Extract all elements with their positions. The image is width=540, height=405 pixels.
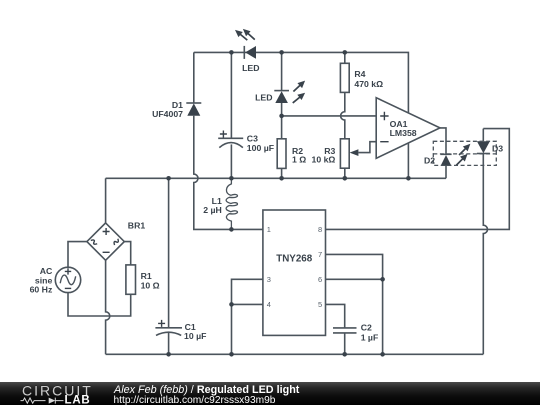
svg-text:6: 6	[318, 275, 322, 284]
svg-text:470 kΩ: 470 kΩ	[354, 79, 383, 89]
svg-text:3: 3	[267, 275, 271, 284]
svg-text:4: 4	[267, 300, 271, 309]
svg-text:1: 1	[267, 225, 271, 234]
svg-text:LAB: LAB	[65, 395, 91, 405]
svg-text:1 Ω: 1 Ω	[292, 154, 306, 164]
svg-text:10 µF: 10 µF	[184, 331, 206, 341]
svg-text:5: 5	[318, 300, 322, 309]
svg-text:D2: D2	[424, 155, 435, 165]
svg-text:LM358: LM358	[390, 128, 417, 138]
svg-text:7: 7	[318, 250, 322, 259]
svg-text:BR1: BR1	[128, 221, 146, 231]
svg-text:60 Hz: 60 Hz	[30, 284, 53, 294]
svg-text:D3: D3	[492, 143, 503, 153]
svg-text:http://circuitlab.com/c92rsssx: http://circuitlab.com/c92rsssx93m9b	[114, 395, 276, 405]
svg-text:1 µF: 1 µF	[361, 333, 379, 343]
svg-text:10 Ω: 10 Ω	[141, 280, 160, 290]
svg-text:R4: R4	[354, 69, 365, 79]
svg-text:10 kΩ: 10 kΩ	[312, 154, 336, 164]
svg-text:UF4007: UF4007	[152, 109, 183, 119]
svg-text:LED: LED	[255, 93, 272, 103]
svg-text:AC: AC	[40, 266, 53, 276]
svg-text:2 µH: 2 µH	[203, 205, 222, 215]
svg-text:TNY268: TNY268	[276, 253, 312, 264]
svg-text:C2: C2	[361, 323, 372, 333]
svg-text:100 µF: 100 µF	[247, 143, 274, 153]
svg-text:LED: LED	[242, 63, 259, 73]
svg-text:8: 8	[318, 225, 322, 234]
